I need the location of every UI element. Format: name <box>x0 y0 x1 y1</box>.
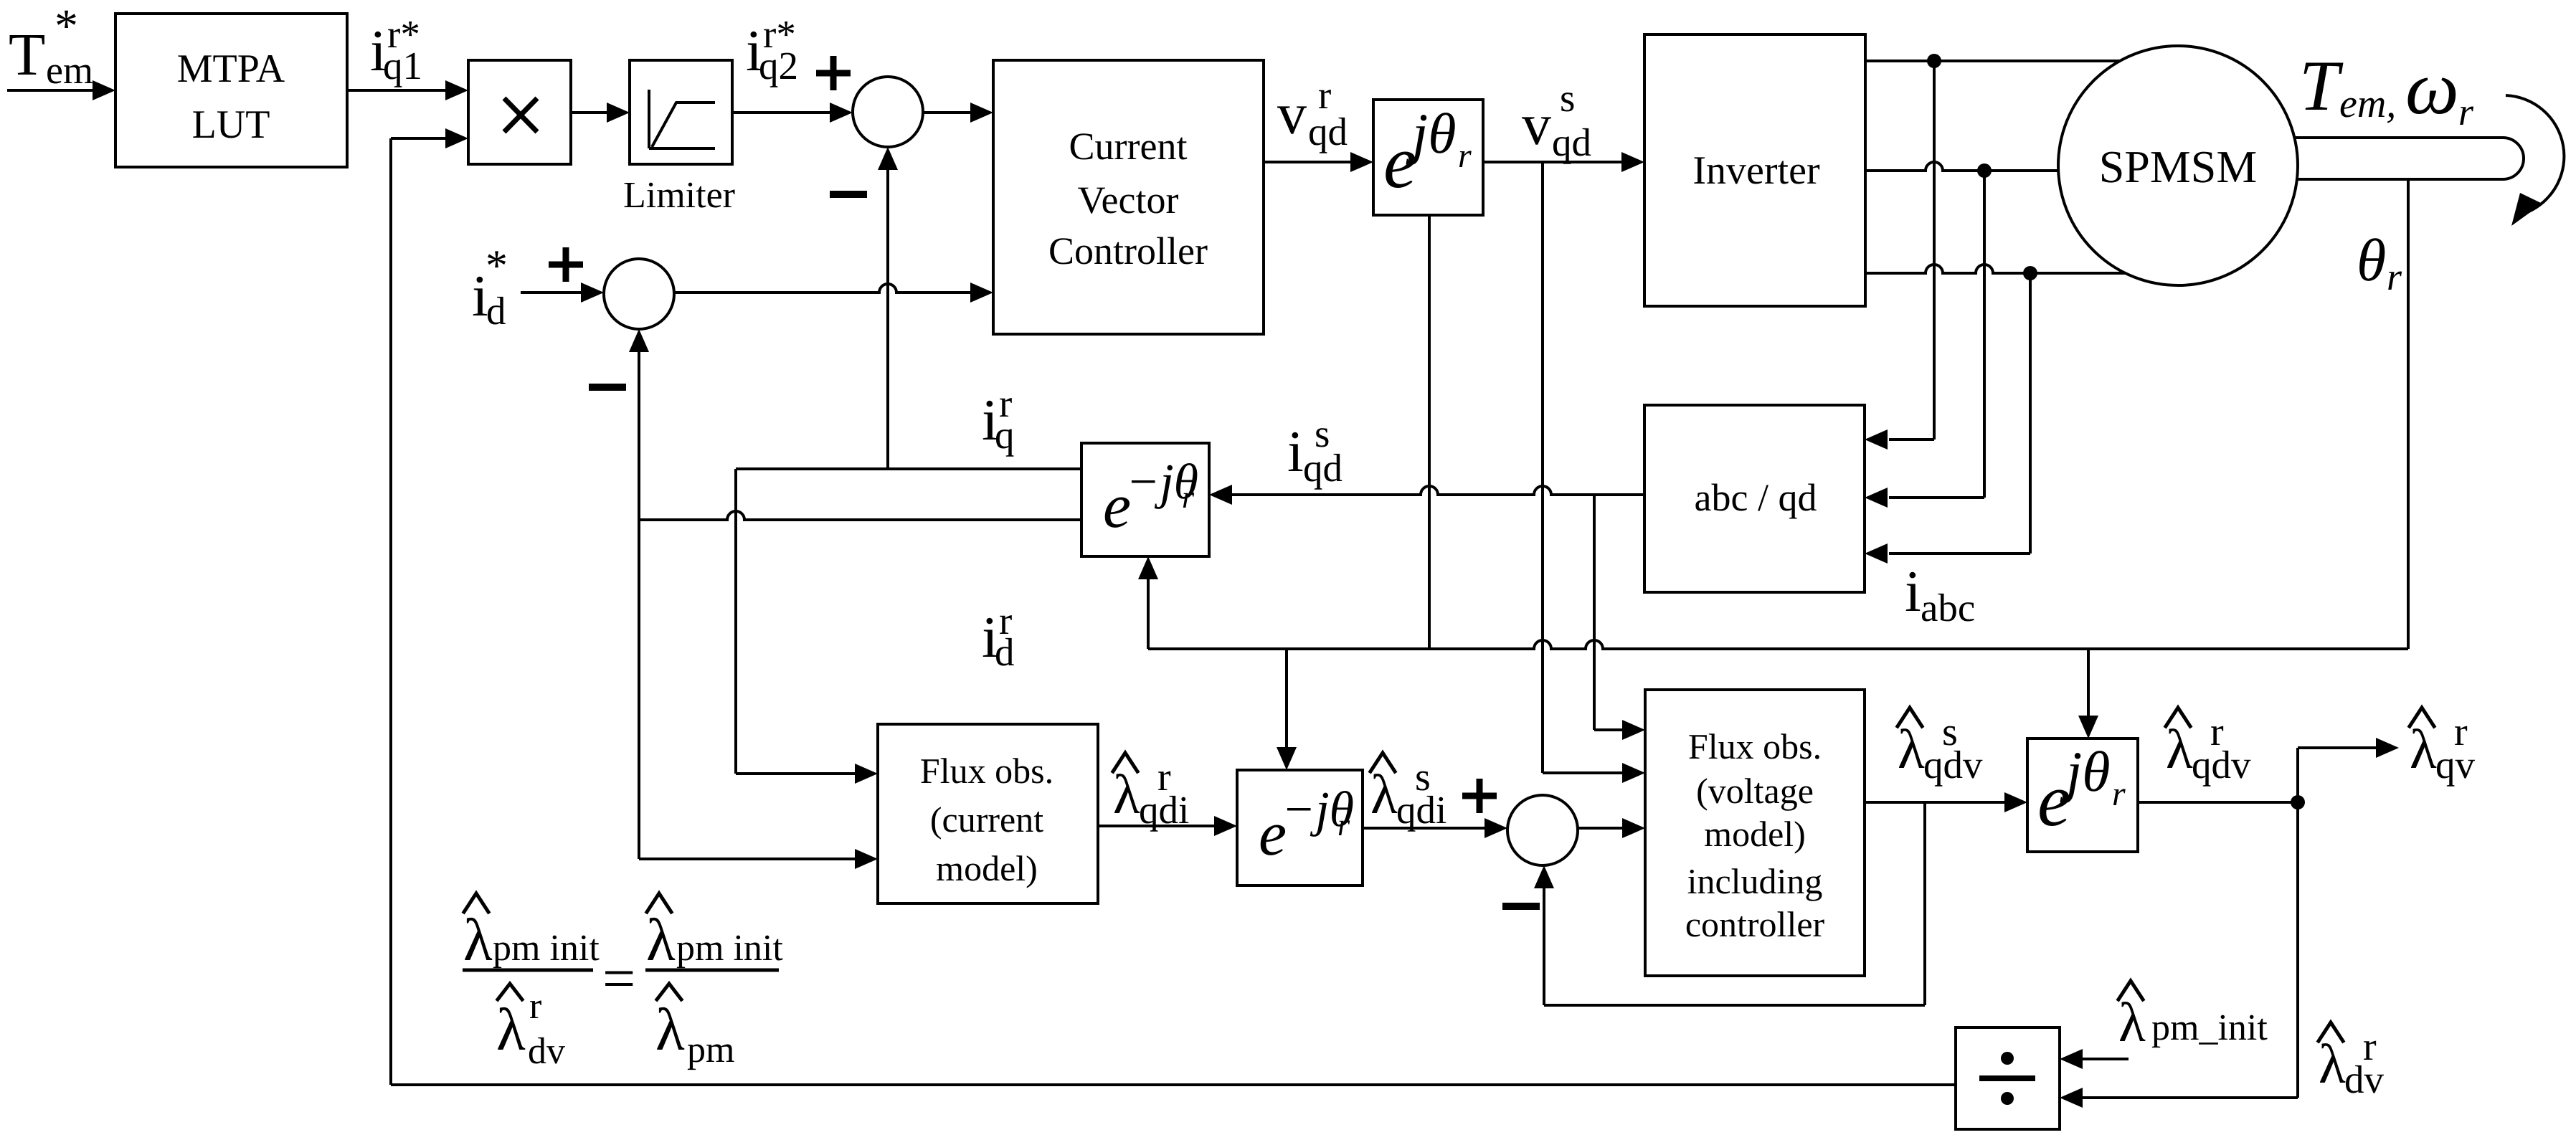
node minus sign of summer 3 <box>1502 903 1540 910</box>
node plus sign of summer 2 <box>549 247 583 282</box>
wire iq feedback into summer 1 <box>878 147 898 469</box>
wire limiter to summer 1 <box>732 103 853 123</box>
wire summer 2 to current vector controller <box>674 282 993 303</box>
svg-text:LUT: LUT <box>192 103 270 147</box>
svg-text:r: r <box>1182 480 1195 515</box>
svg-text:dv: dv <box>2344 1058 2385 1101</box>
wire phase b <box>1865 162 2058 508</box>
svg-text:*: * <box>55 0 78 52</box>
svg-text:Controller: Controller <box>1048 229 1208 272</box>
svg-text:v: v <box>1277 81 1307 146</box>
svg-text:λ: λ <box>463 907 493 974</box>
svg-text:abc: abc <box>1921 586 1975 630</box>
svg-text:r: r <box>1458 137 1472 175</box>
block Limiter <box>630 60 732 164</box>
svg-text:λ: λ <box>496 997 526 1063</box>
node lambda qdi s label <box>1370 753 1446 832</box>
wire theta r to ejtheta 1 <box>1428 215 1431 649</box>
wire phase a <box>1865 54 2120 450</box>
svg-text:i: i <box>1905 559 1921 624</box>
summer 3 (flux) <box>1507 795 1578 865</box>
node lambda qdi r label <box>1113 753 1189 832</box>
node theta r label <box>2357 227 2402 298</box>
svg-text:qd: qd <box>1308 110 1348 153</box>
svg-text:jθ: jθ <box>1406 103 1457 166</box>
svg-text:model): model) <box>1704 814 1806 854</box>
node iq2r* label <box>746 12 798 87</box>
node flux ratio equation <box>463 893 783 1072</box>
block MTPA LUT <box>115 14 347 167</box>
svg-text:pm init: pm init <box>493 928 600 969</box>
svg-text:pm: pm <box>687 1030 734 1070</box>
block multiplier X <box>468 60 571 164</box>
node lambda qdv r label <box>2166 708 2251 787</box>
svg-text:q1: q1 <box>383 44 422 87</box>
node iqr label <box>982 381 1015 457</box>
svg-text:qv: qv <box>2435 743 2476 787</box>
svg-text:qd: qd <box>1303 446 1343 490</box>
svg-text:qdv: qdv <box>2192 743 2251 787</box>
wire e-jtheta 2 to summer 3 <box>1363 818 1507 838</box>
wire CVC to rotation ejtheta <box>1264 152 1373 172</box>
svg-text:r: r <box>1337 807 1350 842</box>
node iabc label <box>1905 559 1975 630</box>
svg-text:dv: dv <box>528 1031 565 1072</box>
svg-text:Flux obs.: Flux obs. <box>920 751 1053 791</box>
wire flux voltage feedback <box>1534 802 1925 1005</box>
svg-text:Inverter: Inverter <box>1692 148 1820 193</box>
svg-text:MTPA: MTPA <box>177 47 285 91</box>
wire rotation arrow <box>2506 95 2564 226</box>
block Flux obs voltage model <box>1645 690 1865 976</box>
node lambda pm init label <box>2118 981 2268 1053</box>
node vqds label <box>1522 76 1591 164</box>
wire ejtheta to inverter <box>1483 152 1644 172</box>
svg-text:Limiter: Limiter <box>623 175 735 216</box>
node Tem omega r label <box>2299 46 2474 133</box>
wire idr output <box>639 511 1081 520</box>
wire flux current to e-jtheta 2 <box>1098 816 1237 836</box>
wire summer 3 to flux voltage <box>1578 818 1645 838</box>
svg-text:qdi: qdi <box>1396 788 1446 832</box>
node lambda dv r label <box>2319 1022 2385 1101</box>
wire theta r to ejtheta 2 <box>2078 649 2098 738</box>
svg-text:θ: θ <box>2357 227 2386 294</box>
svg-text:r: r <box>529 986 541 1027</box>
svg-text:(current: (current <box>930 799 1043 840</box>
wire Tem* input arrow <box>7 80 115 100</box>
svg-text:d: d <box>486 289 506 333</box>
node lambda qv r label <box>2410 708 2476 787</box>
block ejtheta 2 <box>2027 738 2138 852</box>
svg-text:=: = <box>602 946 635 1011</box>
svg-text:q: q <box>995 413 1015 457</box>
svg-text:T: T <box>2299 46 2344 125</box>
block e-jtheta 2 <box>1237 770 1363 885</box>
block Current Vector Controller <box>993 60 1264 334</box>
wire phase c <box>1865 265 2125 564</box>
svg-text:qdv: qdv <box>1923 743 1983 787</box>
wire ejtheta 2 output <box>2138 795 2305 809</box>
svg-text:Vector: Vector <box>1078 179 1179 222</box>
svg-text:ω: ω <box>2405 46 2459 130</box>
svg-text:λ: λ <box>655 997 685 1063</box>
svg-text:r: r <box>2112 775 2126 813</box>
wire lambda dv r to divider <box>2060 802 2298 1108</box>
svg-text:model): model) <box>936 848 1038 888</box>
svg-text:q2: q2 <box>759 44 798 87</box>
node id* label <box>472 242 508 333</box>
wire theta r to e-jtheta 2 <box>1277 649 1297 770</box>
node minus sign of summer 1 <box>830 191 867 198</box>
block e-jtheta 1 <box>1081 443 1209 556</box>
block ejtheta 1 <box>1373 100 1483 215</box>
svg-text:*: * <box>486 242 508 290</box>
block divider <box>1956 1027 2060 1129</box>
node Tem* torque command label <box>9 0 93 92</box>
svg-text:i: i <box>1287 419 1304 484</box>
svg-text:Flux obs.: Flux obs. <box>1688 726 1822 766</box>
wire MTPA to multiplier <box>347 80 468 100</box>
svg-text:including: including <box>1687 861 1823 901</box>
wire flux voltage to ejtheta 2 <box>1865 792 2027 812</box>
svg-text:r: r <box>2387 255 2402 298</box>
svg-text:λ: λ <box>646 907 676 974</box>
svg-text:s: s <box>1560 76 1575 120</box>
wire theta r bus <box>1138 179 2408 649</box>
svg-text:pm init: pm init <box>676 928 783 969</box>
wire multiplier to limiter <box>571 103 630 123</box>
svg-text:pm_init: pm_init <box>2151 1007 2268 1048</box>
node iq1r* label <box>370 12 422 87</box>
wire iqr output <box>736 469 1081 784</box>
block abc/qd <box>1644 405 1865 592</box>
node iqds label <box>1287 412 1343 490</box>
block Flux obs current model <box>878 724 1098 903</box>
node plus sign of summer 3 <box>1462 779 1497 813</box>
svg-text:jθ: jθ <box>2060 741 2111 804</box>
node lambda qdv s label <box>1898 708 1983 787</box>
svg-text:Current: Current <box>1069 125 1188 168</box>
svg-text:r: r <box>2458 90 2474 133</box>
wire vqds tap down to flux observer <box>1543 162 1645 783</box>
block Inverter <box>1644 34 1865 306</box>
svg-text:abc / qd: abc / qd <box>1695 476 1817 519</box>
wire divider feedback to multiplier <box>391 128 1956 1085</box>
summer 1 (iq) <box>853 77 923 147</box>
svg-text:SPMSM: SPMSM <box>2099 141 2258 192</box>
svg-text:d: d <box>995 630 1015 674</box>
wire id feedback vertical <box>629 329 878 869</box>
wire id* to summer 2 <box>521 282 604 303</box>
svg-text:(voltage: (voltage <box>1696 771 1814 811</box>
node minus sign of summer 2 <box>589 384 626 391</box>
svg-text:em: em <box>46 49 93 92</box>
machine SPMSM <box>2058 46 2298 285</box>
summer 2 (id) <box>604 259 674 329</box>
wire iqds from abc/qd <box>1209 485 1645 740</box>
wire lambda pm init into divider <box>2060 1049 2128 1069</box>
node plus sign of summer 1 <box>816 56 851 90</box>
svg-text:controller: controller <box>1685 904 1825 944</box>
node vqdr label <box>1277 73 1348 153</box>
wire summer 1 to current vector controller <box>923 103 993 123</box>
wire shaft <box>2295 138 2524 179</box>
node idr label <box>982 599 1015 674</box>
svg-text:em,: em, <box>2339 82 2396 126</box>
svg-text:T: T <box>9 22 45 88</box>
wire lambda qv r output <box>2298 738 2399 802</box>
svg-text:qd: qd <box>1552 120 1591 164</box>
svg-text:v: v <box>1522 92 1551 157</box>
node Limiter caption <box>623 175 735 216</box>
